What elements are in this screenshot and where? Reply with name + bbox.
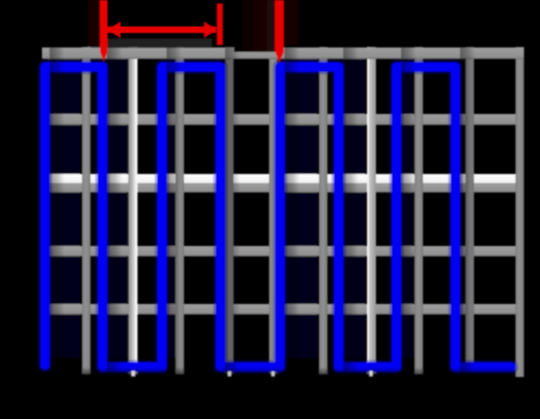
red arrowhead left — [108, 22, 121, 39]
weft thread H1 y=53 — [42, 48, 524, 60]
red jpeg bleed left of marker 1 — [88, 0, 100, 47]
red marker line left x=104 — [100, 0, 108, 62]
jpeg smear right of blue verticals — [50, 47, 65, 376]
ghost smudge above top weft — [104, 39, 212, 49]
weft thread H2 y=119 — [42, 114, 524, 125]
weft thread H4 y=188 — [44, 183, 518, 193]
bottom fade over warp ends — [36, 367, 512, 379]
blue meander thread — [45, 67, 511, 367]
warp thread V6 x=323 — [319, 47, 328, 374]
red end bar — [217, 4, 223, 46]
blue halo tint rectangles — [48, 58, 413, 358]
warp thread V2 x=133 — [128, 47, 137, 374]
warp end stubs below weft bar — [132, 371, 136, 376]
weft thread H6 y=309 — [42, 304, 524, 315]
warp thread V4 x=229 — [225, 47, 234, 374]
warp thread V1 x=86 — [82, 47, 91, 374]
warp thread V9 x=470 — [466, 47, 475, 362]
red jpeg bleed around marker 2 — [234, 0, 275, 52]
red dimension line — [106, 27, 216, 34]
red arrowhead right — [204, 22, 217, 39]
warp thread V5 x=273 — [269, 47, 278, 374]
weft thread H3 white y=178 — [44, 174, 516, 183]
warp thread V8 x=419 — [415, 47, 424, 374]
warp thread V7 x=371 — [367, 47, 376, 374]
weft thread H5 y=250 — [42, 246, 524, 256]
warp thread V10 x=520 — [516, 47, 525, 377]
blue meander thread glow — [45, 67, 511, 367]
red marker line right x=280 — [275, 0, 284, 63]
warp thread V3 x=180 — [176, 47, 185, 374]
